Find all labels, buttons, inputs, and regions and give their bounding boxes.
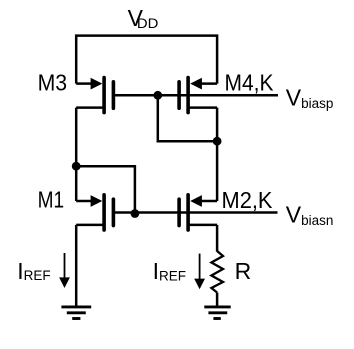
wire Vbiasn gate line (M1 gate to M2 gate to Vbiasn terminal) <box>113 211 277 214</box>
wire M1 diode connection (drain node to gate line) <box>76 166 135 213</box>
wire M1 source down to ground <box>75 225 78 306</box>
transistor M3 (PMOS) <box>76 76 115 115</box>
svg-text:M1: M1 <box>38 187 65 213</box>
node C junction dot on PMOS gate line <box>153 91 162 100</box>
transistor M4 (PMOS, mirrored) <box>177 76 217 115</box>
svg-text:IREF: IREF <box>153 258 186 284</box>
wire M4 drain down to M2 drain <box>216 108 219 201</box>
wire resistor bottom to ground <box>216 293 219 307</box>
wire M3 drain down to M1 drain <box>75 108 78 201</box>
svg-text:Vbiasn: Vbiasn <box>286 202 334 229</box>
current arrow IREF (right) <box>194 254 205 290</box>
svg-text:VDD: VDD <box>128 5 159 31</box>
node VDD: supply rail wire with drops to M3 and M4 sources <box>76 36 217 84</box>
svg-text:M2,K: M2,K <box>222 187 274 213</box>
ground (right) <box>204 307 230 319</box>
svg-text:Vbiasp: Vbiasp <box>286 84 334 111</box>
current arrow IREF (left) <box>59 253 70 288</box>
node A junction dot on M1 drain (diode connection tap) <box>72 162 81 171</box>
wire M2 source down to resistor R <box>216 225 219 252</box>
wire PMOS gate node down and over to M4 drain <box>158 95 217 141</box>
transistor M2 (NMOS, mirrored) <box>177 193 217 232</box>
wire Vbiasp gate line (M3 gate to M4 gate to Vbiasp terminal) <box>113 94 278 97</box>
transistor M1 (NMOS) <box>76 193 115 232</box>
svg-text:M4,K: M4,K <box>225 69 275 95</box>
ground (left) <box>61 307 91 319</box>
node D junction dot at M4 drain <box>213 137 222 146</box>
svg-text:M3: M3 <box>38 69 68 95</box>
svg-text:IREF: IREF <box>17 258 50 284</box>
svg-text:R: R <box>235 258 252 284</box>
resistor R <box>211 251 223 293</box>
node B junction dot on NMOS gate line <box>131 209 140 218</box>
